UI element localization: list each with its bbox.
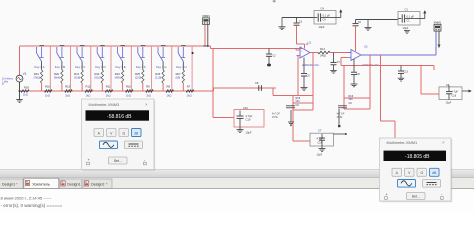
multimeter probe icon XMM1 — [434, 21, 442, 31]
svg-text:8 июня 2020 г., 2:14:45 ------: 8 июня 2020 г., 2:14:45 ------ — [1, 195, 52, 200]
svg-text:560: 560 — [349, 98, 354, 101]
switch S4 (Key = D) — [97, 45, 105, 62]
svg-text:Design1: Design1 — [2, 183, 15, 187]
capacitor on signal line — [266, 49, 276, 64]
ground capacitor rail — [398, 77, 405, 79]
wire U1 - input to network — [297, 56, 298, 96]
svg-text:×: × — [442, 140, 445, 145]
wire left drop to source — [19, 46, 21, 75]
network 2 rungs — [344, 98, 370, 109]
svg-text:[56]: [56] — [176, 76, 181, 80]
wire bottom bus — [20, 90, 214, 92]
svg-text:Key = D: Key = D — [95, 65, 105, 69]
svg-text:Key = H: Key = H — [176, 65, 186, 69]
wire resistor to bottom bus — [41, 83, 43, 91]
ground network 1 — [288, 110, 294, 126]
wire vertical branch — [49, 46, 51, 91]
svg-text:4.7µF: 4.7µF — [317, 137, 324, 140]
svg-text:Key = G: Key = G — [156, 65, 167, 69]
svg-text:Ω: Ω — [122, 131, 125, 135]
resistor R7 — [186, 85, 194, 98]
svg-text:R14: R14 — [320, 47, 325, 51]
label network 2 values — [337, 112, 345, 118]
svg-text:45.5k: 45.5k — [272, 116, 279, 119]
wire resistor to bottom bus — [81, 83, 83, 91]
wire U1 V+ supply — [297, 31, 305, 49]
svg-text:[7kΩ]: [7kΩ] — [34, 76, 41, 80]
resistor R21 — [74, 70, 83, 83]
capacitor C decoupling U2 — [353, 20, 362, 26]
svg-text:0°: 0° — [2, 83, 4, 86]
capacitor under U2 — [351, 59, 360, 84]
svg-text:1kΩ: 1kΩ — [23, 93, 28, 97]
svg-text:XMM3: XMM3 — [202, 14, 210, 18]
wire resistor to bottom bus — [61, 83, 63, 91]
wire resistor to bottom bus — [101, 83, 103, 91]
svg-text:[450]: [450] — [115, 76, 121, 80]
ground under C7 — [330, 69, 337, 71]
svg-text:+: + — [386, 193, 388, 197]
multimeter window XMM3 — [82, 99, 156, 171]
svg-text:Key = B: Key = B — [55, 65, 65, 69]
label network 1 values — [272, 112, 280, 118]
junction node — [192, 52, 194, 54]
svg-text:R24: R24 — [34, 72, 39, 76]
wire drop to lower right — [380, 55, 382, 121]
wire vertical branch — [191, 46, 193, 91]
svg-text:-58.816 dB: -58.816 dB — [107, 114, 132, 120]
capacitor C1 in box — [398, 7, 420, 30]
tab Design1 (partial) — [0, 179, 23, 188]
wire switch to resistor — [182, 62, 184, 71]
wire XMM3 red lead — [204, 24, 206, 46]
wire vertical branch — [130, 46, 132, 91]
svg-text:C7: C7 — [318, 129, 322, 133]
svg-text:1kΩ: 1kΩ — [86, 93, 91, 97]
wire rail end stub — [433, 66, 435, 71]
svg-text:560: 560 — [296, 100, 301, 103]
svg-text:10µF: 10µF — [319, 25, 325, 29]
switch S5 (Key = E) — [118, 45, 126, 62]
svg-text:[3k6]: [3k6] — [54, 76, 60, 80]
capacitor C7 to ground — [331, 53, 341, 71]
svg-text:R12: R12 — [86, 85, 91, 89]
wire U1 output — [310, 52, 318, 54]
svg-text:Set...: Set... — [114, 159, 122, 163]
ground dot under capacitor — [267, 64, 271, 67]
capacitor C7 in box — [310, 129, 334, 146]
tab bar background — [0, 178, 474, 189]
svg-text:R16: R16 — [45, 85, 50, 89]
ground under source — [16, 90, 23, 102]
resistor R24 — [34, 70, 43, 83]
svg-text:R9: R9 — [146, 85, 150, 89]
op-amp U2 — [348, 50, 362, 61]
switch S2 (Key = B) — [57, 45, 65, 62]
capacitor series in lower line — [255, 81, 261, 91]
svg-text:×: × — [145, 102, 148, 107]
svg-text:Key = F: Key = F — [136, 65, 146, 69]
svg-text:+: + — [88, 158, 90, 162]
op-amp U1 — [297, 47, 311, 58]
capacitor C6 in box right — [439, 84, 462, 100]
capacitor C4 in box — [314, 6, 336, 29]
capacitor C5 under U1 — [301, 58, 310, 88]
svg-text:Multimeter-XMM3: Multimeter-XMM3 — [89, 102, 120, 107]
resistor R27 — [176, 70, 185, 83]
status area — [0, 189, 474, 212]
wire to C box right — [421, 66, 439, 95]
wire V+ rail U1 — [282, 17, 314, 19]
svg-text:0.1 µF: 0.1 µF — [323, 13, 331, 17]
multimeter probe icon XMM3 — [202, 14, 210, 24]
resistor R23 — [115, 70, 124, 83]
wire bus black segment — [203, 45, 210, 47]
tab Design2 — [83, 179, 112, 188]
resistor R9 — [146, 85, 153, 98]
svg-text:[220]: [220] — [135, 76, 141, 80]
svg-text:Key = E: Key = E — [116, 65, 126, 69]
tab Design1 — [60, 179, 82, 188]
svg-text:R23: R23 — [115, 72, 120, 76]
ground network 2 — [338, 109, 340, 127]
svg-text:R10: R10 — [126, 85, 131, 89]
svg-text:C1: C1 — [405, 7, 409, 11]
svg-text:R27: R27 — [176, 72, 181, 76]
wire C3 to V+ pin — [296, 25, 298, 31]
resistor R15 — [65, 85, 72, 98]
resistor R26 — [155, 70, 164, 83]
capacitor C10 in selection box — [234, 106, 264, 127]
svg-text:-18.805 dB: -18.805 dB — [405, 154, 430, 160]
resistor R25 — [135, 70, 144, 83]
switch S6 (Key = F) — [138, 45, 146, 62]
svg-text:1kΩ: 1kΩ — [65, 93, 70, 97]
feedback network U1 rails — [273, 53, 313, 142]
svg-text:AD822AN U1A: AD822AN U1A — [302, 64, 319, 67]
wire switch to resistor — [162, 62, 164, 71]
wire lower line — [213, 87, 276, 89]
capacitor on feedback rail — [398, 66, 409, 79]
junction output node — [207, 45, 209, 47]
svg-text:1kΩ: 1kΩ — [126, 93, 131, 97]
svg-text:dB: dB — [134, 131, 139, 135]
svg-text:R8: R8 — [167, 85, 171, 89]
svg-text:C16: C16 — [452, 94, 457, 97]
wire V+ rail U2 — [356, 19, 399, 21]
svg-text:C13: C13 — [404, 71, 409, 74]
wire output step — [208, 45, 211, 47]
wire switch to resistor — [61, 62, 63, 71]
svg-text:Design1: Design1 — [67, 183, 80, 187]
resistor R12 — [85, 85, 93, 98]
svg-text:R7: R7 — [187, 85, 191, 89]
wire resistor to bottom bus — [162, 83, 164, 91]
resistor R16 — [45, 85, 53, 98]
wire XMM3 black lead — [207, 24, 209, 46]
svg-text:[110]: [110] — [155, 76, 161, 80]
switch S7 (Key = G) — [158, 45, 166, 62]
tab active Усилитель — [24, 178, 59, 188]
svg-text:R11: R11 — [106, 85, 111, 89]
wire vertical branch — [110, 46, 112, 91]
wire U2 output (blue) — [361, 31, 436, 55]
capacitor C3 decoupling — [294, 18, 303, 26]
ground under U1 — [301, 87, 308, 89]
wire top bus — [20, 45, 209, 47]
svg-text:1kΩ: 1kΩ — [187, 93, 192, 97]
switch S1 (Key = A) — [37, 45, 45, 62]
wire switch to resistor — [41, 62, 43, 71]
wire signal line to U1 — [211, 48, 303, 50]
svg-text:R21: R21 — [74, 72, 79, 76]
svg-text:10µF: 10µF — [317, 153, 323, 156]
svg-text:R26: R26 — [155, 72, 160, 76]
capacitor C6 marks — [338, 106, 347, 108]
wire switch to resistor — [101, 62, 103, 71]
svg-text:1kΩ: 1kΩ — [106, 93, 111, 97]
svg-text:C16: C16 — [318, 142, 323, 145]
net number 12 top — [273, 0, 276, 2]
wire resistor to bottom bus — [122, 83, 124, 91]
svg-text:R20: R20 — [54, 72, 59, 76]
resistor R18 — [21, 86, 29, 97]
multimeter window XMM1 — [380, 138, 453, 202]
ground under C10 — [237, 127, 252, 135]
svg-text:0.1 µF: 0.1 µF — [407, 14, 415, 18]
resistor R11 — [105, 85, 113, 98]
svg-text:Design2: Design2 — [91, 183, 104, 187]
svg-text:Key = A: Key = A — [35, 65, 45, 69]
svg-text:V1: V1 — [23, 72, 27, 76]
wire feedback rail — [341, 65, 434, 67]
svg-text:C10: C10 — [243, 106, 248, 110]
wire network2 left rail — [343, 66, 345, 110]
svg-text:10µF: 10µF — [446, 101, 452, 104]
wire network2 to lower right — [381, 121, 396, 138]
wire vertical to C10 box — [212, 49, 214, 118]
svg-text:R22: R22 — [95, 72, 100, 76]
wire switch to resistor — [81, 62, 83, 71]
wire switch to resistor — [142, 62, 144, 71]
label R16 network2 — [349, 95, 354, 105]
wire C7 box output — [334, 133, 347, 135]
svg-text:C10: C10 — [246, 118, 251, 122]
svg-text:R15: R15 — [65, 85, 70, 89]
svg-text:[1k8]: [1k8] — [74, 76, 80, 80]
VCC arrow U1 — [336, 9, 342, 17]
wire switch to resistor — [122, 62, 124, 71]
ground V+ rail left — [279, 18, 286, 30]
wire resistor to bottom bus — [182, 83, 184, 91]
resistor R20 — [54, 70, 63, 83]
wire jog bus to lower line — [213, 88, 215, 91]
svg-text:Multimeter-XMM1: Multimeter-XMM1 — [387, 140, 418, 145]
svg-text:240Ω: 240Ω — [320, 55, 326, 58]
svg-text:C8: C8 — [255, 81, 259, 85]
wire vertical branch — [90, 46, 92, 91]
resistor R10 — [126, 85, 134, 98]
svg-text:Set...: Set... — [412, 195, 420, 199]
resistor R8 — [166, 85, 174, 98]
wire box right output arrow — [462, 90, 472, 93]
wire network2 right rail — [369, 55, 371, 109]
svg-text:[910]: [910] — [95, 76, 101, 80]
wire resistor to bottom bus — [142, 83, 144, 91]
wire C to U2 V+ pin — [355, 26, 357, 51]
switch S3 (Key = C) — [77, 45, 85, 62]
svg-text:Усилитель: Усилитель — [32, 183, 50, 187]
svg-text:4.7µF: 4.7µF — [246, 114, 253, 118]
svg-text:R25: R25 — [135, 72, 140, 76]
svg-text:45.5k: 45.5k — [337, 116, 344, 119]
svg-text:U2: U2 — [364, 44, 368, 48]
svg-text:10µF: 10µF — [246, 130, 252, 134]
wire drop to C7 box — [293, 140, 310, 142]
svg-text:R18: R18 — [24, 86, 29, 90]
ground under C1 box — [404, 30, 410, 32]
ground under U2 — [351, 83, 358, 85]
wire U1 + input — [296, 49, 297, 51]
svg-text:4.7µF: 4.7µF — [452, 90, 459, 93]
wire vertical branch — [70, 46, 72, 91]
svg-text:Ω: Ω — [420, 171, 423, 175]
label R19 — [296, 97, 301, 107]
wire U2 - input — [341, 58, 348, 66]
resistor R22 — [95, 70, 104, 83]
svg-text:Key = C: Key = C — [75, 65, 85, 69]
label source value — [2, 78, 14, 87]
ground under C7 box — [317, 146, 326, 156]
svg-text:10µF: 10µF — [403, 26, 409, 30]
wire XMM1 black lead — [438, 31, 441, 48]
switch S8 (Key = H) — [178, 45, 186, 62]
VCC arrow U2 — [420, 10, 426, 18]
svg-text:1kΩ: 1kΩ — [146, 93, 151, 97]
svg-text:1kΩ: 1kΩ — [167, 93, 172, 97]
AC source V1 — [16, 75, 23, 91]
svg-text:dB: dB — [432, 171, 437, 175]
wire into C10 box — [213, 117, 234, 119]
ground V+ rail U2 — [365, 20, 372, 31]
capacitor C9 marks — [286, 106, 295, 108]
resistor R14 — [318, 47, 330, 57]
wire vertical branch — [171, 46, 173, 91]
svg-text:C4: C4 — [321, 6, 325, 10]
svg-text:1kΩ: 1kΩ — [45, 93, 50, 97]
wire R14 to U2 — [330, 52, 351, 54]
wire vertical branch — [151, 46, 153, 91]
svg-text:- error(s), 0 warning(s) =====: - error(s), 0 warning(s) ====== — [1, 203, 63, 208]
